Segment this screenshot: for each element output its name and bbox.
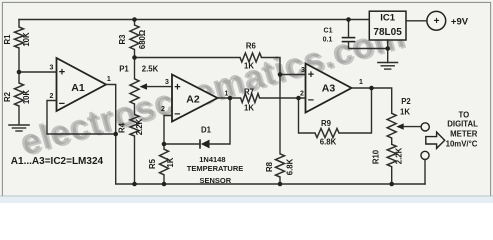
svg-text:680Ω: 680Ω — [138, 30, 147, 49]
svg-text:+: + — [434, 16, 440, 27]
svg-text:2: 2 — [50, 93, 54, 100]
svg-text:1: 1 — [359, 79, 363, 86]
svg-text:P2: P2 — [401, 97, 411, 106]
svg-text:6.8K: 6.8K — [285, 158, 294, 175]
svg-text:6.8K: 6.8K — [320, 138, 337, 147]
svg-text:R7: R7 — [244, 87, 254, 96]
svg-text:C1: C1 — [324, 28, 333, 35]
svg-text:2: 2 — [161, 106, 165, 113]
svg-text:1K: 1K — [244, 62, 254, 71]
svg-text:DIGITAL: DIGITAL — [447, 119, 478, 128]
svg-text:+: + — [308, 69, 314, 81]
svg-text:1K: 1K — [244, 104, 254, 113]
svg-text:TEMPERATURE: TEMPERATURE — [187, 164, 244, 173]
svg-text:1: 1 — [107, 76, 111, 83]
svg-text:2: 2 — [300, 91, 304, 98]
svg-text:A1...A3=IC2=LM324: A1...A3=IC2=LM324 — [11, 156, 104, 167]
svg-text:R8: R8 — [265, 161, 274, 172]
svg-text:2.2K: 2.2K — [135, 118, 144, 135]
svg-text:2.2K: 2.2K — [395, 147, 404, 164]
svg-text:0.1: 0.1 — [323, 37, 333, 44]
svg-text:1K: 1K — [166, 157, 175, 167]
svg-text:10mV/°C: 10mV/°C — [446, 139, 478, 148]
svg-text:A2: A2 — [186, 94, 200, 106]
svg-text:3: 3 — [165, 79, 169, 86]
svg-text:METER: METER — [450, 130, 478, 139]
svg-text:R5: R5 — [148, 158, 157, 169]
svg-text:2.5K: 2.5K — [142, 65, 159, 74]
svg-text:−: − — [174, 109, 180, 121]
svg-text:1: 1 — [225, 91, 229, 98]
svg-text:78L05: 78L05 — [373, 27, 402, 38]
svg-text:R2: R2 — [3, 91, 12, 102]
svg-text:1K: 1K — [400, 108, 410, 117]
svg-text:+: + — [174, 81, 180, 93]
svg-text:+: + — [59, 67, 65, 79]
svg-text:P1: P1 — [119, 65, 129, 74]
svg-text:R3: R3 — [118, 34, 127, 45]
svg-text:−: − — [308, 95, 314, 107]
svg-text:A3: A3 — [322, 83, 336, 95]
svg-text:3: 3 — [301, 67, 305, 74]
svg-text:10K: 10K — [22, 32, 31, 47]
svg-text:R6: R6 — [246, 42, 257, 51]
svg-text:+9V: +9V — [451, 16, 469, 27]
svg-text:A1: A1 — [71, 82, 85, 94]
svg-text:R9: R9 — [321, 119, 332, 128]
svg-text:1N4148: 1N4148 — [199, 155, 225, 164]
svg-text:R10: R10 — [372, 149, 381, 164]
svg-text:D1: D1 — [201, 125, 212, 134]
svg-text:−: − — [59, 98, 65, 110]
svg-text:SENSOR: SENSOR — [199, 176, 231, 185]
svg-text:TO: TO — [458, 111, 469, 120]
svg-text:3: 3 — [50, 65, 54, 72]
svg-text:10K: 10K — [22, 89, 31, 104]
svg-text:IC1: IC1 — [380, 13, 396, 24]
svg-text:R1: R1 — [3, 34, 12, 45]
svg-text:R4: R4 — [117, 122, 126, 133]
